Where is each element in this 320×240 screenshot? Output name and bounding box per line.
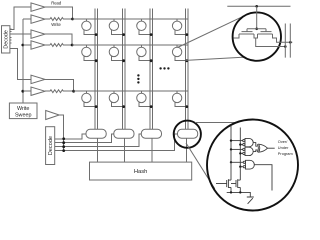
sense box B1 [86, 129, 106, 138]
wire row line 1 [73, 18, 189, 20]
node Q4 source tap [239, 191, 241, 193]
wire DEC2 line 3 to sense box B3 [55, 134, 142, 147]
op-amp A7 sweep buffer [46, 111, 60, 120]
node tap line1 [62, 137, 65, 140]
magnifier callout line lower (cell M24 to inset) [186, 57, 245, 60]
memory cell M13 [137, 19, 153, 36]
node gate junction [255, 28, 258, 31]
wire B1 to Hash [96, 138, 98, 162]
wire riser to A6 input [23, 90, 31, 92]
wire G3 output [268, 147, 275, 149]
node bus1 G2 tap [230, 148, 232, 150]
ellipsis rows continue [137, 74, 139, 83]
node bus2 G4 tap [239, 166, 241, 168]
wire bit line pair col2 [122, 9, 125, 130]
ground [247, 197, 254, 204]
wire bus1 down to Q3 drain [230, 162, 232, 180]
node row2 junction [71, 44, 74, 47]
sense box B3 [141, 129, 161, 138]
wire DEC2 line 2 to sense box B2 [55, 134, 114, 143]
op-amp A1 read buffer row1 [31, 3, 45, 11]
svg-text:Program: Program [278, 151, 293, 156]
resistor R2 [50, 44, 63, 47]
wire bus2 to G2 input [240, 152, 242, 154]
memory cell M22 [109, 45, 125, 62]
wire riser to A4 input [23, 44, 31, 46]
wire R2 to row2 node [63, 44, 72, 46]
wire inset word line [227, 5, 290, 7]
wire DEC2 line 1 to sense box B1 [55, 134, 86, 139]
node row1 junction [71, 18, 74, 21]
transistor Q1 channel [239, 33, 254, 35]
row decoder DEC1 [2, 26, 12, 53]
block Write Sweep [9, 103, 37, 119]
node tap line2 [62, 141, 65, 144]
wire A7 output down to decode lines [59, 115, 64, 151]
gate G4 (AND) [243, 160, 254, 169]
op-amp A4 write buffer row2 [31, 41, 45, 49]
memory cell M11 [82, 19, 98, 36]
wire B4 to Hash [186, 138, 188, 162]
transistor Q3 [227, 179, 231, 188]
wire A2 to resistor [45, 18, 50, 20]
gate G2 (AND) [243, 147, 254, 155]
wire Q4 source down [239, 187, 241, 192]
node bit line 1 tap [284, 45, 287, 48]
resistor R3 [50, 90, 63, 93]
transistor Q4 [236, 179, 240, 188]
wire Q1 drain to Q2 source [254, 34, 258, 38]
op-amp A2 write buffer row1 [31, 15, 45, 23]
block Hash [90, 162, 192, 180]
node write riser tap row3 [21, 90, 24, 93]
wire B3 to Hash [151, 138, 153, 162]
gate G3 (XOR) [257, 144, 267, 152]
wire bus1 to G1 input [231, 140, 243, 142]
column decoder DEC2 [46, 127, 55, 165]
node bus1 G4 tap [230, 161, 232, 163]
label Over/Under Program [278, 139, 293, 156]
node bit line 2 tap [289, 41, 292, 44]
node tap line4 [62, 149, 65, 152]
wire bus2 to G4 input [240, 166, 243, 168]
node row3 junction [72, 90, 75, 93]
memory cell M24 [172, 45, 188, 62]
wire G1 out to G3 [253, 143, 257, 147]
wire R3 to row3 node [63, 90, 74, 92]
magnifier circle source (around B4) [174, 121, 201, 148]
memory cell M31 [82, 91, 98, 108]
sense box B4 [178, 129, 198, 138]
wire bit line pair col4 [186, 9, 189, 130]
wire DEC1 to read buffer row1 (riser) [10, 7, 31, 29]
magnifier circle logic inset [207, 120, 298, 211]
node tap line3 [62, 145, 65, 148]
svg-text:Write: Write [17, 106, 29, 112]
wire Q2 drain to bit line 2 [273, 34, 293, 42]
wire source rail [227, 192, 251, 197]
transistor Q1 source lead [234, 34, 240, 38]
magnifier callout line lower (B4 to logic inset) [186, 143, 215, 189]
wire bus2 to G1 input [240, 144, 242, 146]
svg-text:Over/: Over/ [278, 139, 288, 144]
wire mid node to bit line 1 [256, 38, 287, 47]
wire bit line pair col1 [95, 9, 98, 130]
transistor Q2 gate [261, 31, 272, 33]
wire Q3 gate to Q4 [231, 183, 236, 185]
svg-text:Under: Under [278, 145, 289, 150]
svg-text:Sweep: Sweep [15, 113, 31, 119]
wire row line 3 [74, 90, 189, 92]
op-amp A5 read buffer row3 [31, 75, 45, 83]
wire Q3 source down [230, 187, 232, 192]
memory cell M32 [109, 91, 125, 108]
wire A6 to resistor [45, 90, 50, 92]
wire inset bit line pair [285, 24, 290, 58]
node Q3 source tap [230, 191, 232, 193]
node bus1 G1 tap [230, 139, 232, 141]
op-amp A6 write buffer row3 [31, 87, 45, 95]
gate G1 (AND) [243, 138, 254, 146]
wire shared gate bar [247, 29, 266, 32]
wire gate stem [256, 6, 258, 29]
svg-text:Decode: Decode [4, 30, 10, 49]
node write riser tap row2 [21, 44, 24, 47]
sense box B2 [114, 129, 134, 138]
memory cell M21 [82, 45, 98, 62]
transistor Q2 channel [258, 33, 273, 35]
svg-text:Decode: Decode [48, 136, 54, 155]
wire bus1 to G4 input [231, 161, 243, 163]
wire inset bus 1 [230, 126, 232, 162]
node bus2 G2 tap [239, 152, 241, 154]
wire A5 output to row3 node [45, 79, 74, 91]
wire write riser (sweep bus) [22, 19, 24, 103]
node word line tap [255, 5, 258, 8]
wire DEC2 line 4 to sense box B4 [55, 134, 178, 151]
wire G4 output [254, 165, 272, 191]
wire bus2 down to Q4 drain [239, 167, 241, 180]
wire A1 output to row1 node [45, 7, 73, 19]
transistor Q1 gate [242, 31, 253, 33]
wire B2 to Hash [124, 138, 126, 162]
wire A4 to resistor [45, 44, 50, 46]
wire riser to A2 input [23, 18, 31, 20]
wire inset bus 2 [239, 128, 241, 167]
wire gate lead left [216, 183, 227, 185]
node bus2 G1 tap [239, 143, 241, 145]
memory cell M34 [172, 91, 188, 108]
wire DEC1 to read buffer row2 [10, 33, 31, 35]
resistor R1 [50, 18, 63, 21]
ellipsis columns continue [159, 67, 169, 69]
wire R1 to row1 node [63, 18, 72, 20]
wire row line 2 [72, 44, 188, 46]
wire G2 out to G3 [253, 150, 257, 152]
magnifier circle cell inset [233, 12, 281, 60]
op-amp A3 read buffer row2 [31, 30, 45, 38]
svg-text:Write: Write [51, 22, 61, 27]
memory cell M14 [172, 19, 188, 36]
svg-text:Hash: Hash [134, 169, 148, 175]
wire bit line pair col3 [150, 9, 153, 130]
memory cell M23 [137, 45, 153, 62]
magnifier callout line upper (cell M24 to inset) [178, 15, 247, 48]
wire bus1 to G2 input [231, 148, 243, 150]
wire DEC1 to read buffer row3 (riser) [10, 49, 31, 80]
svg-text:Read: Read [51, 0, 62, 5]
wire A3 output to row2 node [45, 34, 72, 45]
memory cell M33 [137, 91, 153, 108]
memory cell M12 [109, 19, 125, 36]
magnifier callout line upper (B4 to logic inset) [195, 121, 237, 123]
